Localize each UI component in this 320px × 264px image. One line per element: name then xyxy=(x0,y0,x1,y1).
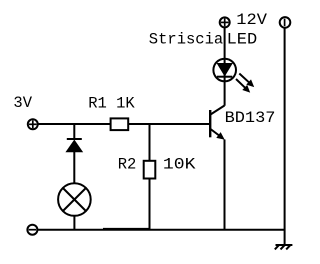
wire: R1 to transistor base xyxy=(128,123,209,125)
lamp L1 (X diagonals) xyxy=(63,188,86,211)
resistor R1 xyxy=(111,118,129,130)
ground (chassis) hatch 3 xyxy=(286,245,290,249)
LED D2 emission arrow 1 xyxy=(239,74,249,83)
transistor Q1 base bar xyxy=(209,110,211,137)
LED D2 (circle) xyxy=(213,59,236,82)
transistor Q1 emitter arrowhead xyxy=(217,133,224,139)
wire: junction down to R2 xyxy=(149,124,151,161)
svg-text:12V: 12V xyxy=(236,11,267,29)
lamp L1 (circle) xyxy=(58,183,91,216)
LED D2 (triangle, pointing down) xyxy=(217,64,232,76)
wire: top rail down to diode D1 xyxy=(73,124,75,139)
transistor Q1 emitter diagonal xyxy=(211,129,219,135)
ground (chassis) bar xyxy=(276,244,293,246)
terminal (12V negative) xyxy=(280,17,291,28)
svg-text:Striscia: Striscia xyxy=(149,30,223,48)
wire: emitter to bottom rail xyxy=(224,140,226,230)
wire: diode to lamp xyxy=(73,152,75,183)
wire: 12V- terminal down to ground xyxy=(284,28,286,245)
resistor R2 xyxy=(144,161,156,179)
terminal - (3V battery negative) xyxy=(27,225,37,235)
terminal + (12V positive) xyxy=(220,17,230,27)
svg-text:R2: R2 xyxy=(118,156,137,174)
wire: bottom rail xyxy=(38,229,285,231)
terminal + (3V battery positive) xyxy=(28,119,38,129)
svg-text:10K: 10K xyxy=(163,155,196,173)
transistor Q1 collector diagonal xyxy=(211,106,225,115)
svg-text:LED: LED xyxy=(227,30,258,48)
wire: 12V+ terminal through LED to collector xyxy=(224,27,226,105)
wire: overlapping segment on bottom rail xyxy=(103,228,150,230)
ground (chassis) hatch 2 xyxy=(281,245,285,249)
LED D2 emission arrow 2 xyxy=(236,79,245,88)
wire: 3V+ terminal to R1 xyxy=(38,123,110,125)
svg-text:3V: 3V xyxy=(13,94,32,112)
diode D1 (triangle, pointing up) xyxy=(66,140,82,152)
wire: R2 to bottom rail xyxy=(149,179,151,230)
wire: lamp to bottom rail xyxy=(73,216,75,230)
ground (chassis) hatch 1 xyxy=(275,245,279,249)
svg-text:R1 1K: R1 1K xyxy=(88,94,135,112)
LED D2 (cathode bar) xyxy=(217,76,232,78)
diode D1 (cathode bar) xyxy=(67,138,82,140)
svg-text:BD137: BD137 xyxy=(225,109,276,127)
